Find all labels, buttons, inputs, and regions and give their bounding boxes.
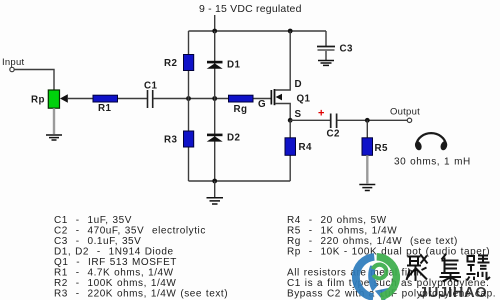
label: R5 [375,143,388,154]
svg-text:R5: R5 [375,143,388,154]
label: 30 ohms, 1 mH [394,157,471,168]
svg-text:C3: C3 [340,44,353,55]
svg-text:R3: R3 [164,135,177,146]
node: gate junction at R2/R3 column [186,96,191,101]
watermark logo [352,253,400,300]
label: Output [390,107,420,118]
label: S (source) [295,109,302,120]
ground: below C3 [318,61,334,66]
svg-text:D1, D2 - 1N914 Diode: D1, D2 - 1N914 Diode [54,246,174,257]
watermark chinese character 號 [467,256,491,281]
svg-text:C1: C1 [144,81,157,92]
resistor R1 [93,95,118,102]
label: Q1 [297,94,311,105]
svg-text:Rg - 220 ohms, 1/4W (see te: Rg - 220 ohms, 1/4W (see text) [287,236,458,247]
label: D (drain) [295,79,302,90]
svg-text:Rp - 10K - 100K dual pot (au: Rp - 10K - 100K dual pot (audio taper) [287,246,490,257]
node: gate junction at diode column [212,96,217,101]
svg-text:C3 - 0.1uF, 35V: C3 - 0.1uF, 35V [54,236,141,247]
node: input terminal [10,67,14,71]
label: Rg [234,104,248,115]
label: R4 [299,142,312,153]
node: R5 junction [365,118,370,123]
svg-text:D1: D1 [227,60,240,71]
watermark chinese character 集 [440,254,462,282]
headphones icon [414,133,449,151]
svg-text:Rp: Rp [31,95,45,106]
wire: bottom rail [189,180,291,182]
watermark chinese character 聚 [407,255,428,282]
label: Input [2,57,24,68]
diode D1 [207,61,223,69]
node: supply junction [212,29,217,34]
label: D1 [227,60,240,71]
wire: R2 column [188,31,190,99]
svg-text:R3 - 220K ohms, 1/4W (see te: R3 - 220K ohms, 1/4W (see text) [54,288,228,299]
wire: C2 to output [337,119,407,121]
wire: ground stub [214,181,216,197]
resistor R3 [184,131,194,147]
label: + polarity of C2 [318,108,324,120]
label: D2 [227,133,240,144]
svg-text:Q1 - IRF 513 MOSFET: Q1 - IRF 513 MOSFET [54,257,177,268]
node: bottom rail junction [212,179,217,184]
label: C3 [340,44,353,55]
label: R1 [98,103,111,114]
resistor R4 [285,138,296,156]
label: 9-15 VDC regulated [199,3,302,15]
wire: source to C2 [290,119,330,121]
svg-text:Output: Output [390,107,420,118]
label: R2 [164,58,177,69]
wire: diode column upper [214,31,216,99]
wire: top rail [189,30,327,32]
wire: supply stub [214,15,216,31]
svg-text:30 ohms, 1 mH: 30 ohms, 1 mH [394,157,471,168]
svg-text:R2: R2 [164,58,177,69]
svg-text:9 - 15 VDC regulated: 9 - 15 VDC regulated [199,3,302,15]
svg-text:D: D [295,79,302,90]
svg-text:JUJIHAO: JUJIHAO [419,285,487,300]
wire: diode column lower [214,99,216,182]
svg-text:R1: R1 [98,103,111,114]
wire: R3 column [188,99,190,182]
svg-text:C2 - 470uF, 35V electrolyti: C2 - 470uF, 35V electrolytic [54,225,206,236]
wiper arrow of Rp [60,94,68,103]
capacitor C2 [331,114,337,129]
label: G [258,99,266,110]
wire: input to pot [14,70,54,91]
potentiometer Rp [48,90,59,108]
ground: below Rp [46,135,62,140]
svg-text:+: + [318,108,324,120]
svg-text:R5 - 1K ohms, 1/4W: R5 - 1K ohms, 1/4W [287,225,397,236]
resistor Rg [229,95,254,102]
wire: R5 column [366,120,368,138]
label: R3 [164,135,177,146]
wire: pot bottom lead [53,108,55,134]
transistor Q1 (IRF513 MOSFET) [271,31,291,120]
svg-text:G: G [258,99,266,110]
node: output terminal [407,118,411,122]
node: source junction [288,118,293,123]
svg-text:Rg: Rg [234,104,248,115]
svg-text:Q1: Q1 [297,94,311,105]
svg-text:R2 - 100K ohms, 1/4W: R2 - 100K ohms, 1/4W [54,278,176,289]
wire: gate line C1 to Q1 [153,98,271,100]
label: C2 [327,129,340,140]
wire: C3 stub from rail [325,31,327,46]
wire: R5 bottom lead [366,155,368,183]
svg-text:S: S [295,109,302,120]
resistor R2 [184,55,194,71]
label: C1 [144,81,157,92]
svg-text:R1 - 4.7K ohms, 1/4W: R1 - 4.7K ohms, 1/4W [54,267,174,278]
svg-text:Input: Input [2,57,24,68]
parts list left column [54,215,228,299]
svg-text:R4 - 20 ohms, 5W: R4 - 20 ohms, 5W [287,215,387,226]
ground: main [207,198,224,204]
svg-text:C2: C2 [327,129,340,140]
wire: R4 column [289,120,291,181]
parts list right column [287,215,496,299]
svg-text:R4: R4 [299,142,312,153]
ground: below R5 [359,185,375,191]
label: Rp [31,95,45,106]
capacitor C3 [317,47,335,61]
diode D2 [207,134,223,142]
node: drain rail junction [288,29,293,34]
capacitor C1 [148,90,153,108]
watermark text JUJIHAO [419,285,487,300]
wire: wiper to C1 [68,98,148,100]
svg-text:D2: D2 [227,133,240,144]
svg-text:C1 - 1uF, 35V: C1 - 1uF, 35V [54,215,132,226]
resistor R5 [362,138,373,156]
